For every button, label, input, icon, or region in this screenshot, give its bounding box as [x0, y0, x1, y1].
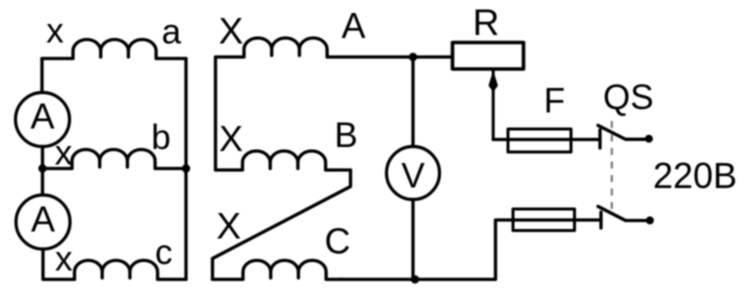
svg-text:F: F: [544, 82, 565, 121]
winding b (secondary, phase b): [43, 149, 187, 168]
svg-text:c: c: [155, 233, 173, 272]
svg-text:R: R: [473, 2, 500, 43]
wire (a terminal to ammeter PA1): [40, 59, 43, 93]
svg-text:X: X: [219, 10, 244, 51]
wire (B end diagonal down to C start): [213, 170, 351, 279]
svg-text:x: x: [55, 240, 73, 279]
svg-text:B: B: [334, 116, 357, 155]
svg-text:QS: QS: [603, 78, 654, 117]
node (switch pole 1 pivot): [645, 135, 653, 143]
winding c (secondary, phase c): [74, 260, 186, 279]
wire (left section right bus a-b-c): [184, 59, 187, 280]
node (top junction at voltmeter tap): [409, 53, 417, 61]
winding C (primary, phase C): [213, 260, 343, 279]
voltmeter PV: [387, 147, 440, 200]
node (junction b right, on right bus): [182, 164, 190, 172]
fuse F2: [513, 209, 575, 231]
svg-text:b: b: [151, 118, 170, 157]
mechanical link of QS poles (dashed): [611, 121, 613, 212]
wire (voltmeter down to bottom bus): [411, 200, 414, 280]
ammeter PA2: [16, 195, 70, 249]
svg-text:C: C: [325, 221, 351, 262]
winding A (primary, phase A) with wire to rheostat: [216, 38, 453, 170]
ammeter PA1: [16, 93, 70, 147]
svg-text:V: V: [401, 157, 425, 196]
svg-text:a: a: [162, 13, 182, 52]
wire (bottom bus from winding C to fuse F2 branch): [340, 220, 601, 279]
svg-text:X: X: [219, 118, 243, 159]
svg-text:A: A: [341, 5, 365, 46]
switch QS pole 1 fixed contact: [598, 130, 601, 148]
winding a (secondary, phase a): [42, 39, 186, 58]
node (bottom junction at voltmeter): [411, 275, 419, 283]
svg-text:220В: 220В: [653, 155, 737, 196]
svg-text:x: x: [55, 134, 73, 173]
wire (PA1 to PA2 through node): [41, 147, 44, 196]
node (junction x-b left): [38, 164, 46, 172]
svg-text:X: X: [216, 206, 241, 247]
svg-text:A: A: [31, 198, 55, 239]
rheostat R: [453, 43, 524, 70]
svg-text:x: x: [46, 12, 64, 51]
wire (wiper through fuse F1 to switch): [493, 138, 600, 141]
wire (PA2 down to winding c): [43, 249, 75, 279]
winding B (primary, phase B): [216, 151, 351, 170]
wire (top junction down to voltmeter): [411, 57, 414, 147]
switch QS pole 2 fixed contact: [599, 212, 602, 228]
switch QS pole 1 blade: [598, 125, 645, 139]
node (switch pole 2 pivot): [646, 216, 654, 224]
svg-text:A: A: [30, 96, 54, 137]
rheostat wiper arrow: [489, 70, 497, 140]
fuse F1: [508, 129, 571, 152]
switch QS pole 2 blade: [598, 206, 646, 220]
